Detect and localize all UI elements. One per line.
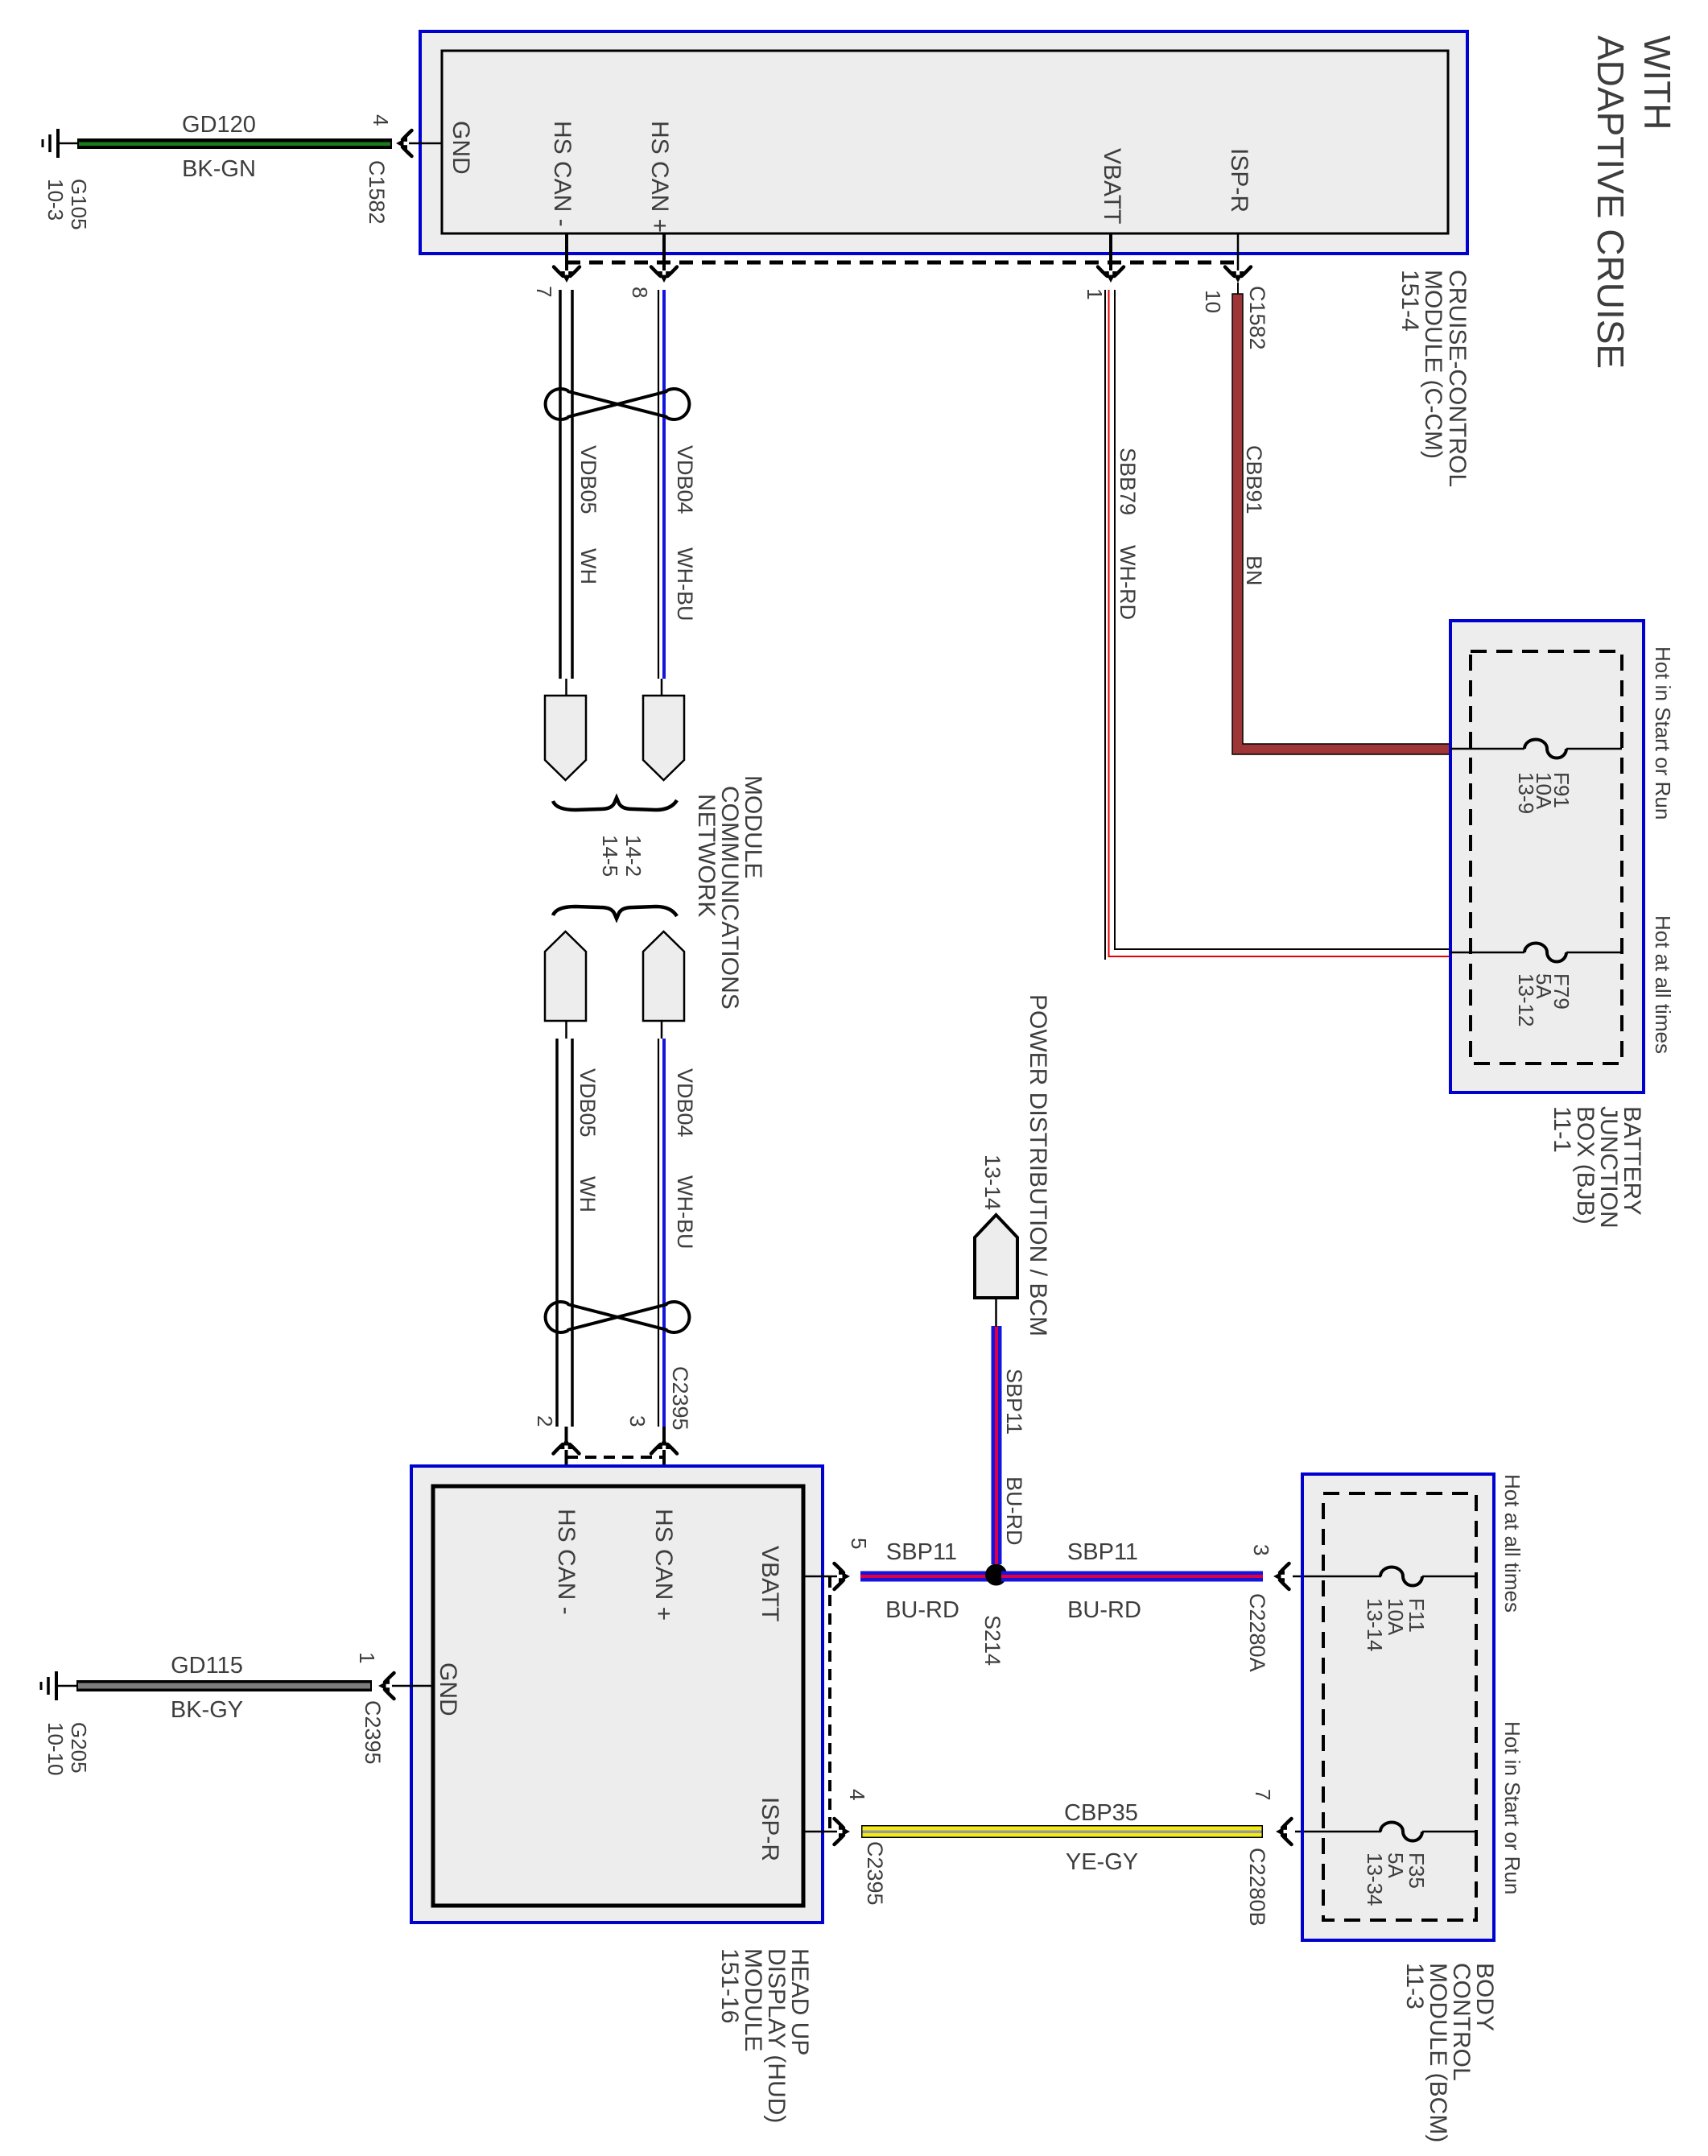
- svg-text:14-2: 14-2: [621, 835, 646, 877]
- wire SBB79 WH-RD: [1105, 290, 1450, 960]
- svg-text:3: 3: [625, 1415, 650, 1427]
- svg-text:ADAPTIVE CRUISE: ADAPTIVE CRUISE: [1590, 35, 1632, 369]
- label BODY CONTROL MODULE (BCM) 11-3: [1401, 1963, 1498, 2142]
- off-page connector POWER DISTRIBUTION / BCM: [975, 1215, 1017, 1298]
- connector C2395 dashed line: [567, 1456, 664, 1459]
- svg-text:Hot in Start or Run: Hot in Start or Run: [1651, 646, 1675, 820]
- pin 5 stub (HUD VBATT): [803, 1576, 837, 1578]
- pin 1 connector arrow (left): [378, 1673, 394, 1699]
- svg-text:CRUISE-CONTROL: CRUISE-CONTROL: [1444, 270, 1471, 487]
- stub to off-page connector left: [565, 679, 567, 696]
- svg-text:13-14: 13-14: [1363, 1598, 1387, 1652]
- svg-text:10-3: 10-3: [43, 179, 68, 221]
- svg-text:NETWORK: NETWORK: [693, 794, 720, 917]
- svg-text:ISP-R: ISP-R: [1226, 148, 1252, 213]
- break brace lower: [553, 907, 677, 919]
- ground G205: [41, 1671, 76, 1700]
- pin 10 lead into wire: [1237, 283, 1239, 296]
- pin 5 connector arrow (right): [835, 1563, 851, 1589]
- svg-text:WH-RD: WH-RD: [1116, 545, 1140, 620]
- wire VDB05 WH lower (twisted pair): [557, 1039, 572, 1427]
- svg-text:WITH: WITH: [1636, 35, 1678, 130]
- twisted-pair symbol upper: [546, 389, 690, 419]
- svg-text:13-9: 13-9: [1514, 772, 1538, 814]
- title WITH ADAPTIVE CRUISE: [1590, 35, 1678, 369]
- pin 1 connector arrow (down): [1098, 267, 1124, 283]
- svg-text:13-14: 13-14: [980, 1154, 1005, 1210]
- svg-text:2: 2: [533, 1415, 557, 1427]
- svg-text:BK-GN: BK-GN: [182, 156, 256, 182]
- label BATTERY JUNCTION BOX (BJB) 11-1: [1549, 1106, 1645, 1229]
- svg-text:WH: WH: [576, 548, 600, 584]
- svg-text:7: 7: [1251, 1789, 1275, 1800]
- module BCM Body Control Module box: [1302, 1474, 1494, 1940]
- svg-text:13-12: 13-12: [1514, 973, 1538, 1027]
- svg-text:HS CAN -: HS CAN -: [553, 1509, 580, 1615]
- svg-text:11-3: 11-3: [1401, 1963, 1428, 2009]
- fuse label F35 5A 13-34: [1363, 1852, 1429, 1906]
- pin 10 stub (C-CM ISP-R): [1237, 233, 1240, 277]
- off-page connector (down) left: [545, 696, 586, 780]
- off-page connector (down) right: [643, 696, 684, 780]
- stub to off-page connector right: [661, 679, 663, 696]
- svg-text:1: 1: [355, 1652, 379, 1663]
- stub from off-page connector left: [565, 1021, 567, 1039]
- svg-text:BU-RD: BU-RD: [885, 1597, 959, 1623]
- off-page connector (up) right: [643, 931, 684, 1021]
- twisted-pair symbol lower: [546, 1302, 690, 1332]
- svg-text:5: 5: [847, 1538, 871, 1549]
- svg-text:VDB04: VDB04: [673, 1068, 697, 1138]
- svg-text:VDB05: VDB05: [576, 1068, 600, 1138]
- svg-text:C2280B: C2280B: [1245, 1848, 1269, 1927]
- wire SBP11 BU-RD right segment: [1001, 1572, 1263, 1582]
- wire CBB91 BN: [1232, 294, 1450, 754]
- fuse label F11 10A 13-14: [1363, 1598, 1429, 1652]
- svg-text:G105: G105: [67, 179, 91, 230]
- zone reference 14-2 14-5: [598, 835, 646, 877]
- svg-text:C1582: C1582: [1245, 286, 1269, 350]
- fuse F91 10A: [1450, 740, 1622, 758]
- svg-text:4: 4: [369, 114, 393, 126]
- stub to power off-page connector: [995, 1298, 997, 1327]
- svg-text:POWER DISTRIBUTION / BCM: POWER DISTRIBUTION / BCM: [1025, 994, 1051, 1336]
- svg-text:GD115: GD115: [171, 1653, 243, 1679]
- pin 4 stub (HUD ISP-R): [803, 1831, 837, 1833]
- svg-text:HS CAN +: HS CAN +: [646, 121, 673, 233]
- svg-text:4: 4: [845, 1789, 869, 1800]
- svg-text:10: 10: [1201, 290, 1225, 313]
- svg-text:CBP35: CBP35: [1064, 1800, 1138, 1826]
- svg-text:14-5: 14-5: [598, 835, 622, 877]
- svg-text:3: 3: [1249, 1544, 1273, 1555]
- svg-text:BU-RD: BU-RD: [1002, 1477, 1026, 1546]
- svg-text:SBP11: SBP11: [1067, 1539, 1138, 1565]
- pin 7 stub (HS CAN -): [565, 233, 568, 277]
- svg-text:C2280A: C2280A: [1245, 1593, 1269, 1672]
- pin 1 stub (HUD GND): [392, 1685, 433, 1687]
- svg-text:SBB79: SBB79: [1116, 448, 1140, 515]
- svg-text:BU-RD: BU-RD: [1067, 1597, 1141, 1623]
- svg-text:Hot in Start or Run: Hot in Start or Run: [1500, 1721, 1524, 1894]
- off-page connector (up) left: [545, 931, 586, 1021]
- wire VDB04 WH-BU upper: [658, 290, 664, 679]
- ground label G105 10-3: [43, 179, 91, 230]
- module C-CM Cruise-Control Module box: [420, 31, 1467, 254]
- svg-text:13-34: 13-34: [1363, 1852, 1387, 1906]
- svg-text:BN: BN: [1242, 556, 1266, 586]
- pin 8 stub (HS CAN +): [662, 233, 666, 277]
- svg-text:BK-GY: BK-GY: [171, 1697, 243, 1723]
- wire CBP35 YE-GY: [861, 1825, 1263, 1838]
- svg-text:YE-GY: YE-GY: [1066, 1849, 1138, 1875]
- pin 2 connector arrow (up): [554, 1438, 580, 1454]
- svg-text:ISP-R: ISP-R: [757, 1797, 783, 1861]
- svg-text:C2395: C2395: [668, 1366, 692, 1431]
- svg-text:S214: S214: [980, 1615, 1005, 1666]
- pin 8 connector arrow (down): [651, 267, 677, 283]
- svg-text:Hot at all times: Hot at all times: [1500, 1474, 1524, 1613]
- connector C1582 dashed line: [567, 261, 1238, 265]
- svg-text:HS CAN -: HS CAN -: [549, 121, 576, 227]
- break brace upper: [553, 798, 677, 810]
- svg-text:WH: WH: [576, 1176, 600, 1212]
- svg-text:HS CAN +: HS CAN +: [650, 1509, 677, 1621]
- svg-text:151-4: 151-4: [1397, 270, 1423, 332]
- svg-text:151-16: 151-16: [716, 1948, 743, 2023]
- pin 1 stub (C-CM VBATT): [1109, 233, 1112, 277]
- svg-text:1: 1: [1083, 288, 1107, 299]
- module BJB Battery Junction Box: [1450, 621, 1644, 1092]
- label CRUISE-CONTROL MODULE (C-CM) 151-4: [1397, 270, 1471, 487]
- pin 7 connector arrow (down): [554, 267, 580, 283]
- stub into BCM (pin 7): [1295, 1831, 1324, 1833]
- pin 4 connector arrow (left): [396, 130, 412, 156]
- wire SBP11 BU-RD vertical segment: [992, 1326, 1002, 1564]
- stub from off-page connector right: [661, 1021, 663, 1039]
- wire VDB05 WH upper (twisted pair): [560, 290, 572, 679]
- splice S214: [985, 1564, 1007, 1586]
- fuse label F91 10A 13-9: [1514, 772, 1574, 814]
- svg-text:WH-BU: WH-BU: [673, 547, 697, 621]
- pin 10 connector arrow (down): [1225, 267, 1251, 283]
- dashed connector line HUD right: [828, 1576, 831, 1832]
- wire GD120 BK-GN: [77, 138, 392, 149]
- fuse F79 5A: [1450, 944, 1622, 962]
- fuse F11 10A: [1304, 1567, 1476, 1586]
- svg-text:C1582: C1582: [365, 160, 389, 225]
- fuse label F79 5A 13-12: [1514, 973, 1574, 1027]
- stub into BCM (pin 3): [1293, 1576, 1324, 1578]
- svg-text:G205: G205: [67, 1722, 91, 1774]
- svg-text:GND: GND: [435, 1662, 461, 1716]
- wire SBP11 BU-RD left segment: [860, 1572, 991, 1582]
- svg-text:VDB05: VDB05: [576, 445, 600, 514]
- svg-text:SBP11: SBP11: [886, 1539, 957, 1565]
- svg-text:C2395: C2395: [863, 1841, 887, 1906]
- wire VDB04 WH-BU lower: [658, 1039, 664, 1427]
- pin 3 stem (HUD HS CAN +): [662, 1427, 666, 1486]
- pin 2 stem (HUD HS CAN -): [565, 1427, 568, 1486]
- svg-text:8: 8: [628, 287, 652, 298]
- svg-text:WH-BU: WH-BU: [673, 1175, 697, 1249]
- svg-text:10-10: 10-10: [43, 1722, 68, 1776]
- svg-text:C2395: C2395: [361, 1700, 385, 1765]
- svg-text:Hot at all times: Hot at all times: [1651, 915, 1675, 1054]
- pin 3 connector arrow (up): [651, 1438, 677, 1454]
- svg-text:11-1: 11-1: [1549, 1106, 1575, 1153]
- svg-text:7: 7: [532, 286, 556, 297]
- label HEAD UP DISPLAY (HUD) MODULE 151-16: [716, 1948, 813, 2123]
- svg-text:SBP11: SBP11: [1002, 1369, 1026, 1435]
- svg-text:GND: GND: [448, 121, 474, 175]
- fuse F35 5A: [1304, 1823, 1476, 1841]
- svg-text:VBATT: VBATT: [1099, 148, 1125, 224]
- ground G105: [43, 129, 77, 158]
- svg-text:GD120: GD120: [182, 112, 256, 138]
- wire GD115 BK-GY: [76, 1680, 372, 1691]
- ground label G205 10-10: [43, 1722, 91, 1776]
- label MODULE COMMUNICATIONS NETWORK: [693, 775, 766, 1010]
- module HUD Head Up Display box: [411, 1466, 823, 1923]
- svg-text:CBB91: CBB91: [1242, 445, 1266, 514]
- pin 7 connector arrow C2280B (left): [1276, 1819, 1292, 1844]
- pin 4 stub (C-CM GND): [409, 142, 442, 145]
- svg-text:VBATT: VBATT: [757, 1546, 783, 1621]
- pin 3 connector arrow C2280A (left): [1273, 1563, 1289, 1589]
- svg-text:VDB04: VDB04: [673, 445, 697, 514]
- pin 4 connector arrow (right): [835, 1819, 851, 1844]
